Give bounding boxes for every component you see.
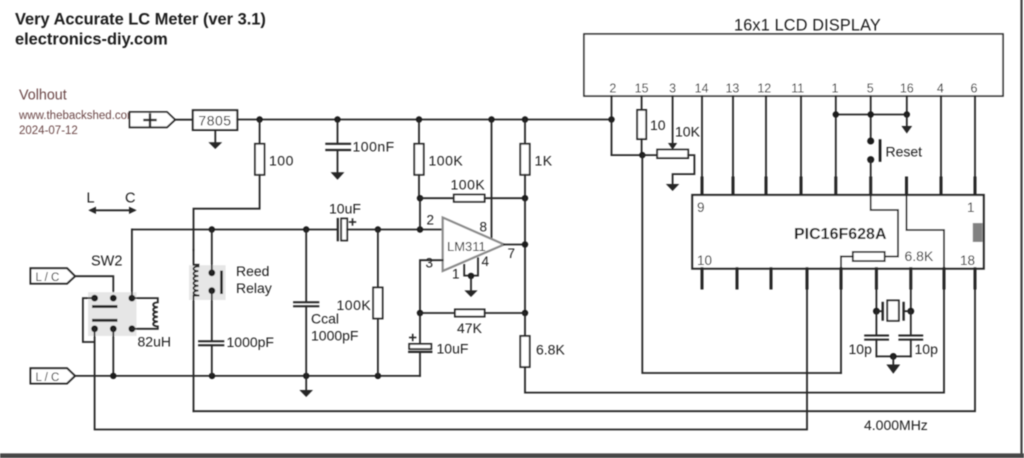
node rail-pin8 — [488, 116, 494, 122]
svg-text:18: 18 — [960, 253, 975, 268]
wire LCD pin1 to gnd line and PIC — [835, 96, 837, 179]
svg-text:C: C — [125, 191, 135, 207]
node feedback right — [522, 195, 528, 201]
svg-text:16x1 LCD DISPLAY: 16x1 LCD DISPLAY — [734, 17, 881, 35]
LCD pin numbers — [609, 82, 977, 96]
svg-text:4: 4 — [937, 82, 944, 96]
svg-text:4.000MHz: 4.000MHz — [864, 417, 928, 433]
wire oscillator line — [132, 229, 337, 231]
PIC top pin stubs — [702, 178, 975, 195]
node rail-R100 — [256, 116, 262, 122]
svg-text:Reset: Reset — [886, 144, 923, 160]
wire crystal caps common — [876, 355, 910, 357]
svg-text:4: 4 — [482, 254, 490, 269]
wire LCD pin4 to PIC — [940, 96, 942, 179]
svg-text:3: 3 — [426, 256, 434, 271]
svg-text:2: 2 — [427, 213, 435, 228]
svg-text:6: 6 — [971, 82, 978, 96]
wire pins 1,4 to ground — [464, 258, 478, 275]
node osc-pin2 — [417, 226, 423, 232]
author note — [18, 88, 137, 138]
wire switch left loop — [83, 298, 95, 342]
svg-text:Volhout: Volhout — [19, 88, 67, 104]
connector + (power input) — [130, 112, 176, 127]
node rail-R1K — [522, 116, 528, 122]
wire LCD pin16 down — [906, 96, 908, 115]
svg-text:L / C: L / C — [36, 272, 60, 284]
crystal X1 — [875, 288, 877, 311]
bottom bar — [0, 453, 1024, 458]
wire LCD pin5 down — [870, 96, 872, 141]
svg-text:100nF: 100nF — [353, 139, 395, 155]
node osc-reed — [209, 226, 215, 232]
wire MCLR routing — [871, 195, 898, 257]
reed relay body — [189, 265, 226, 300]
node rail-SW2 — [110, 373, 116, 379]
wire pin7 output — [504, 244, 525, 246]
svg-text:1: 1 — [452, 267, 460, 282]
wire reed top contact — [211, 230, 213, 273]
node output — [522, 241, 528, 247]
capacitor 1000pF — [199, 341, 223, 345]
wire PIC pin18 to reed coil — [194, 288, 976, 411]
regulator 7805 — [193, 110, 238, 130]
svg-text:SW2: SW2 — [91, 254, 122, 270]
switch Reset — [867, 138, 874, 145]
svg-text:10: 10 — [697, 253, 712, 268]
LCD display box — [584, 34, 1003, 96]
wire pin8 supply — [491, 120, 493, 241]
wire C side up to oscillator line — [131, 230, 133, 299]
wire LCD pin13 to PIC — [732, 96, 734, 179]
wire LCD pin3 to pot wiper — [672, 96, 674, 144]
wire LCD pin6 to PIC — [974, 96, 976, 179]
capacitor 100nF — [337, 120, 339, 144]
resistor 100K (oscillator) — [375, 226, 381, 232]
svg-text:electronics-diy.com: electronics-diy.com — [15, 31, 168, 49]
connector L/C (upper) — [31, 268, 76, 283]
reed contact bar — [220, 271, 223, 294]
svg-text:Reed: Reed — [236, 263, 269, 279]
node feedback left — [417, 195, 423, 201]
reed contacts — [208, 269, 215, 276]
pin1 marker — [973, 223, 983, 242]
svg-text:L / C: L / C — [36, 372, 60, 384]
PIC bottom pin stubs — [702, 269, 975, 288]
node 47K right — [522, 310, 528, 316]
wire LCD pin14 to PIC — [701, 96, 703, 179]
node gnd-pin1 — [833, 111, 839, 117]
node R10-pot — [639, 152, 645, 158]
svg-text:12: 12 — [757, 82, 771, 96]
svg-text:100K: 100K — [337, 297, 372, 313]
svg-text:11: 11 — [791, 82, 804, 96]
resistor 6.8K (MCLR pullup) — [853, 252, 885, 261]
resistor 100 — [259, 120, 261, 144]
capacitor 10uF (integrator) — [419, 313, 421, 344]
svg-text:Relay: Relay — [236, 280, 272, 296]
svg-text:www.thebackshed.com: www.thebackshed.com — [18, 110, 137, 122]
svg-text:1: 1 — [832, 82, 839, 96]
svg-text:10p: 10p — [915, 341, 939, 357]
wire 5V rail — [237, 119, 611, 121]
node gnd-pin16 — [904, 111, 910, 117]
wire LCD pin12 to PIC — [765, 96, 767, 179]
ground — [214, 130, 216, 142]
wire L/C to switch — [75, 276, 113, 298]
resistor 47K — [420, 312, 455, 314]
svg-text:10: 10 — [650, 117, 666, 133]
capacitor C 10p (left) — [875, 311, 877, 335]
svg-text:10uF: 10uF — [329, 201, 361, 217]
wire reed bottom contact to 1000pF — [211, 291, 213, 341]
node osc-Ccal — [303, 226, 309, 232]
wire pot to ground — [673, 155, 695, 184]
wire reset to PIC pin4 — [870, 160, 872, 179]
resistor 10 — [641, 96, 643, 110]
switch SW2 contacts — [91, 295, 98, 302]
node rail-1000pF — [209, 373, 215, 379]
inductor 82uH — [132, 298, 158, 329]
svg-text:100K: 100K — [429, 153, 464, 169]
wire output to PIC pin17 — [525, 288, 944, 393]
svg-text:16: 16 — [900, 82, 914, 96]
relay coil (reed relay) — [194, 250, 199, 411]
node rail-100K — [375, 373, 381, 379]
wire 6.8K to 5V — [841, 256, 853, 258]
node rail-C100nF — [334, 116, 340, 122]
svg-text:100K: 100K — [451, 177, 486, 193]
switch SW2 body — [88, 292, 137, 336]
wire LCD pin2 to rail — [611, 96, 613, 155]
wire pin2 node up to feedback — [419, 198, 421, 229]
microcontroller U2 PIC16F628A — [692, 195, 983, 269]
svg-text:6.8K: 6.8K — [905, 248, 934, 264]
svg-text:10K: 10K — [675, 124, 701, 140]
capacitor Ccal 1000pF — [305, 230, 307, 302]
svg-text:1000pF: 1000pF — [227, 334, 274, 350]
node rail-Ccal — [303, 373, 309, 379]
svg-text:10p: 10p — [849, 341, 873, 357]
node 47K left — [417, 310, 423, 316]
node gnd-pin5 — [868, 111, 874, 117]
svg-text:L: L — [87, 191, 95, 207]
wire ground rail — [75, 375, 420, 377]
ground (LCD) — [906, 115, 908, 127]
ground (crystal) — [892, 356, 894, 365]
node rail-R100K — [416, 116, 422, 122]
svg-text:10uF: 10uF — [437, 341, 469, 357]
svg-text:PIC16F628A: PIC16F628A — [794, 226, 887, 243]
potentiometer 10K — [642, 154, 657, 156]
svg-text:100: 100 — [269, 153, 294, 169]
svg-text:13: 13 — [725, 82, 739, 96]
wire — [175, 119, 193, 121]
svg-text:6.8K: 6.8K — [536, 342, 565, 358]
L-C range arrow — [91, 209, 134, 211]
svg-text:Very Accurate LC Meter (ver 3.: Very Accurate LC Meter (ver 3.1) — [15, 11, 266, 29]
title text — [15, 11, 266, 49]
wire 5V node down to PIC supply — [642, 155, 841, 373]
svg-text:15: 15 — [635, 82, 649, 96]
wire switch mid contact to ground rail — [112, 329, 114, 376]
svg-text:2024-07-12: 2024-07-12 — [19, 125, 78, 137]
capacitor C 10p (right) — [910, 311, 912, 335]
svg-text:9: 9 — [697, 200, 705, 215]
svg-text:5: 5 — [867, 82, 874, 96]
resistor 6.8K (output) — [524, 313, 526, 336]
svg-text:14: 14 — [695, 82, 709, 96]
resistor 100K (top) — [418, 120, 420, 144]
wire pin3 — [420, 260, 443, 313]
svg-text:8: 8 — [480, 220, 488, 235]
ground (rail) — [305, 376, 307, 390]
wire R100 to reed coil — [194, 175, 260, 250]
svg-text:1K: 1K — [535, 153, 553, 169]
switch SW2 bars — [94, 307, 117, 321]
right border line — [1020, 0, 1022, 454]
svg-text:7: 7 — [508, 246, 516, 261]
svg-text:47K: 47K — [457, 320, 483, 336]
svg-text:3: 3 — [669, 82, 676, 96]
resistor 100K (feedback) — [420, 197, 454, 199]
svg-text:LM311: LM311 — [447, 239, 486, 254]
wire to R10 node — [612, 154, 643, 156]
resistor 1K — [524, 120, 526, 144]
svg-text:82uH: 82uH — [138, 334, 171, 350]
wire 1K to output node — [524, 198, 526, 313]
svg-text:1: 1 — [967, 200, 975, 215]
connector L/C (lower) — [31, 368, 76, 383]
node rail-LCD2 — [608, 116, 614, 122]
wire gnd line — [836, 114, 907, 116]
wire LCD pin11 to PIC — [800, 96, 802, 179]
op-amp U1 LM311 — [443, 218, 504, 271]
svg-text:1000pF: 1000pF — [311, 328, 358, 344]
wire switch to PIC pin13 (bottom long wire) — [95, 288, 807, 430]
wire T0CKI routing — [907, 195, 945, 268]
svg-text:Ccal: Ccal — [311, 311, 339, 327]
svg-text:2: 2 — [609, 82, 616, 96]
svg-text:7805: 7805 — [198, 113, 231, 129]
